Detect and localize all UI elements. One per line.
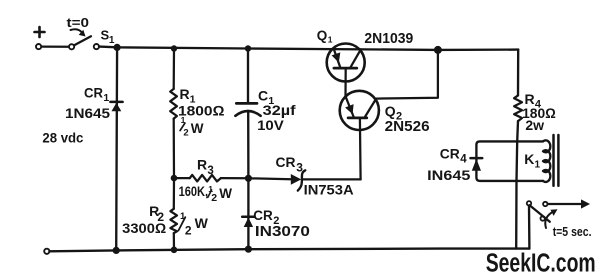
svg-text:t=0: t=0	[67, 15, 90, 30]
node junction C1/R3/CR3/CR2	[245, 175, 252, 182]
node junction bottom CR1	[113, 247, 120, 254]
wire Q1 base to Q2	[344, 68, 346, 97]
svg-text:W: W	[219, 186, 232, 201]
svg-text:R: R	[180, 86, 190, 102]
svg-text:W: W	[195, 215, 209, 231]
transistor Q1	[327, 44, 365, 82]
svg-text:IN3070: IN3070	[255, 224, 310, 240]
svg-text:IN645: IN645	[427, 167, 470, 183]
diode CR4	[471, 158, 483, 171]
wire right column to R4	[517, 50, 520, 96]
wire contact pivot to bottom rail	[528, 206, 531, 249]
svg-text:CR: CR	[440, 145, 460, 161]
svg-text:3: 3	[207, 165, 213, 177]
svg-text:4: 4	[460, 153, 467, 165]
svg-text:SeekIC.com: SeekIC.com	[486, 250, 596, 278]
plus polarity mark	[35, 27, 45, 37]
svg-text:IN753A: IN753A	[304, 182, 354, 198]
wire CR3 to Q2 base	[302, 178, 361, 180]
svg-text:10V: 10V	[257, 117, 284, 133]
diode CR1	[110, 102, 122, 111]
svg-text:CR: CR	[253, 207, 272, 223]
svg-text:K: K	[524, 151, 534, 167]
node junction top of C1	[245, 45, 251, 51]
wire bottom rail	[49, 249, 529, 252]
svg-text:Q: Q	[317, 28, 328, 43]
svg-text:1: 1	[535, 160, 541, 171]
node junction at S1	[114, 44, 121, 51]
wire R2 to bottom rail	[173, 233, 175, 250]
wire top rail	[99, 47, 518, 50]
relay K1 coil box	[476, 135, 558, 186]
svg-text:1N645: 1N645	[65, 105, 110, 121]
node junction top of R1	[171, 45, 177, 51]
svg-text:28 vdc: 28 vdc	[42, 130, 83, 146]
wire relay box to bottom rail	[515, 181, 518, 249]
resistor R2	[170, 209, 177, 233]
wire R3 right stub	[221, 177, 249, 179]
wire C1 column top segment	[247, 49, 249, 104]
wire C1 to node	[247, 111, 250, 178]
svg-text:CR: CR	[276, 154, 296, 170]
wire terminal to switch pivot	[41, 45, 68, 47]
svg-text:160K,: 160K,	[179, 183, 209, 199]
svg-text:3: 3	[296, 161, 303, 175]
svg-text:2: 2	[183, 128, 188, 139]
svg-text:1: 1	[103, 92, 109, 104]
svg-text:1: 1	[109, 35, 115, 46]
svg-text:32µf: 32µf	[263, 102, 296, 118]
svg-text:2: 2	[211, 192, 217, 204]
wire Q2 collector to top junction	[376, 50, 438, 99]
resistor R4	[514, 95, 522, 121]
relay contact switch t=5	[527, 199, 590, 228]
svg-text:t=5 sec.: t=5 sec.	[553, 225, 592, 239]
wire R1 to R3 node	[173, 119, 176, 179]
resistor R3	[190, 175, 221, 182]
wire Q2 base lead	[359, 118, 362, 179]
wire node to R2	[173, 178, 175, 209]
diode CR2	[242, 217, 254, 227]
node junction bottom CR2	[245, 246, 252, 253]
wire R1/R2 column top segment	[173, 49, 176, 89]
transistor Q2	[340, 91, 379, 130]
node junction top right	[434, 46, 442, 54]
wire node to CR2	[247, 178, 249, 249]
wire R3 left stub	[174, 177, 190, 179]
svg-text:2N1039: 2N1039	[364, 30, 413, 47]
svg-text:R: R	[197, 157, 207, 173]
svg-text:2w: 2w	[525, 117, 544, 133]
svg-text:W: W	[191, 121, 204, 136]
svg-text:Q: Q	[385, 103, 396, 119]
node junction R1/R3	[171, 175, 178, 182]
svg-text:CR: CR	[84, 84, 103, 100]
resistor R1	[170, 89, 177, 119]
input terminal bottom-left	[44, 249, 49, 254]
label t=0 with actuation arrow	[71, 29, 86, 36]
wire through relay box	[515, 141, 518, 181]
svg-text:2: 2	[185, 224, 192, 238]
zener diode CR3	[248, 170, 305, 190]
svg-text:2N526: 2N526	[385, 118, 430, 135]
wire R4 to relay box	[516, 121, 519, 141]
input terminal top-left	[36, 44, 41, 49]
switch S1	[69, 36, 99, 49]
node junction bottom R2	[171, 247, 178, 254]
svg-text:1: 1	[328, 35, 333, 45]
svg-text:3300Ω: 3300Ω	[122, 220, 166, 236]
wire CR1 column	[115, 47, 118, 250]
capacitor C1	[235, 103, 260, 115]
